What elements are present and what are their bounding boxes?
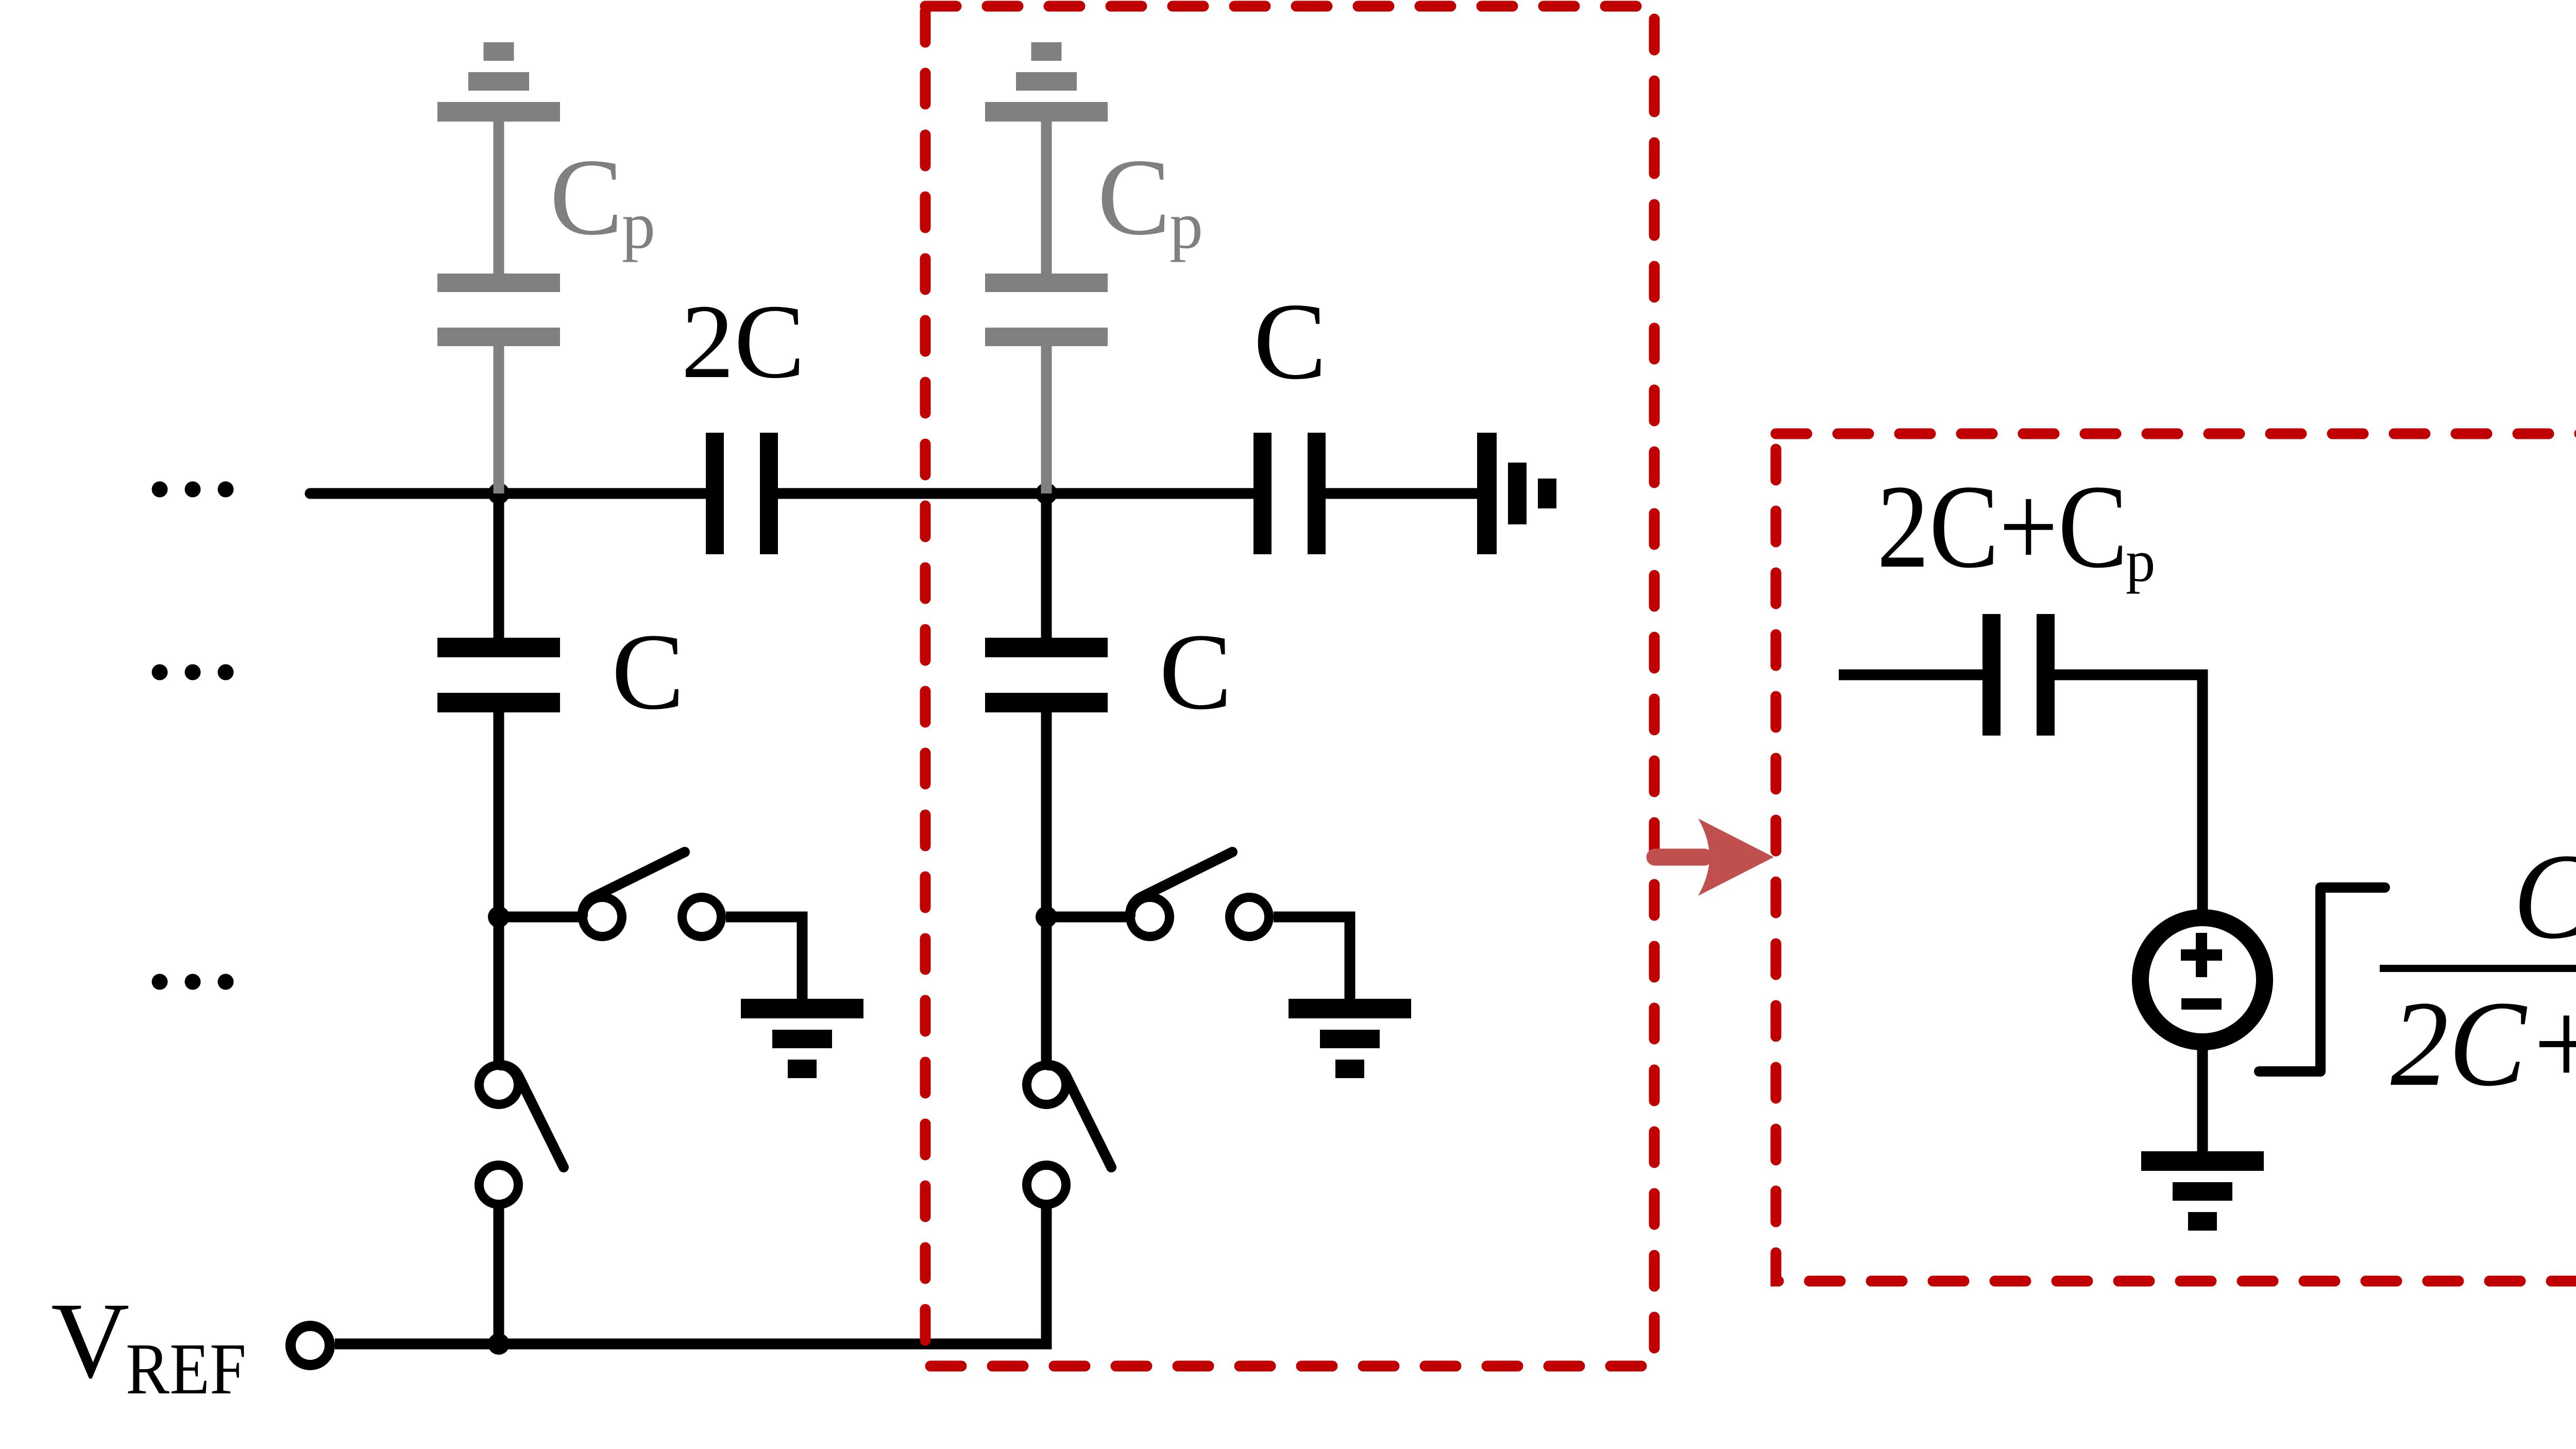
svg-text:C: C xyxy=(2513,829,2576,964)
svg-text:2C: 2C xyxy=(681,282,805,400)
svg-text:C: C xyxy=(1253,281,1327,402)
svg-text:p: p xyxy=(622,189,655,263)
svg-text:REF: REF xyxy=(126,1328,246,1409)
svg-text:C: C xyxy=(612,611,684,732)
svg-text:2C+C: 2C+C xyxy=(1877,461,2128,593)
svg-text:C: C xyxy=(1159,611,1232,732)
svg-text:p: p xyxy=(2126,529,2156,594)
svg-text:2C+C: 2C+C xyxy=(2391,976,2576,1112)
svg-text:C: C xyxy=(550,137,623,258)
svg-text:V: V xyxy=(51,1280,129,1401)
svg-text:p: p xyxy=(1170,189,1203,263)
svg-text:C: C xyxy=(1097,137,1171,258)
